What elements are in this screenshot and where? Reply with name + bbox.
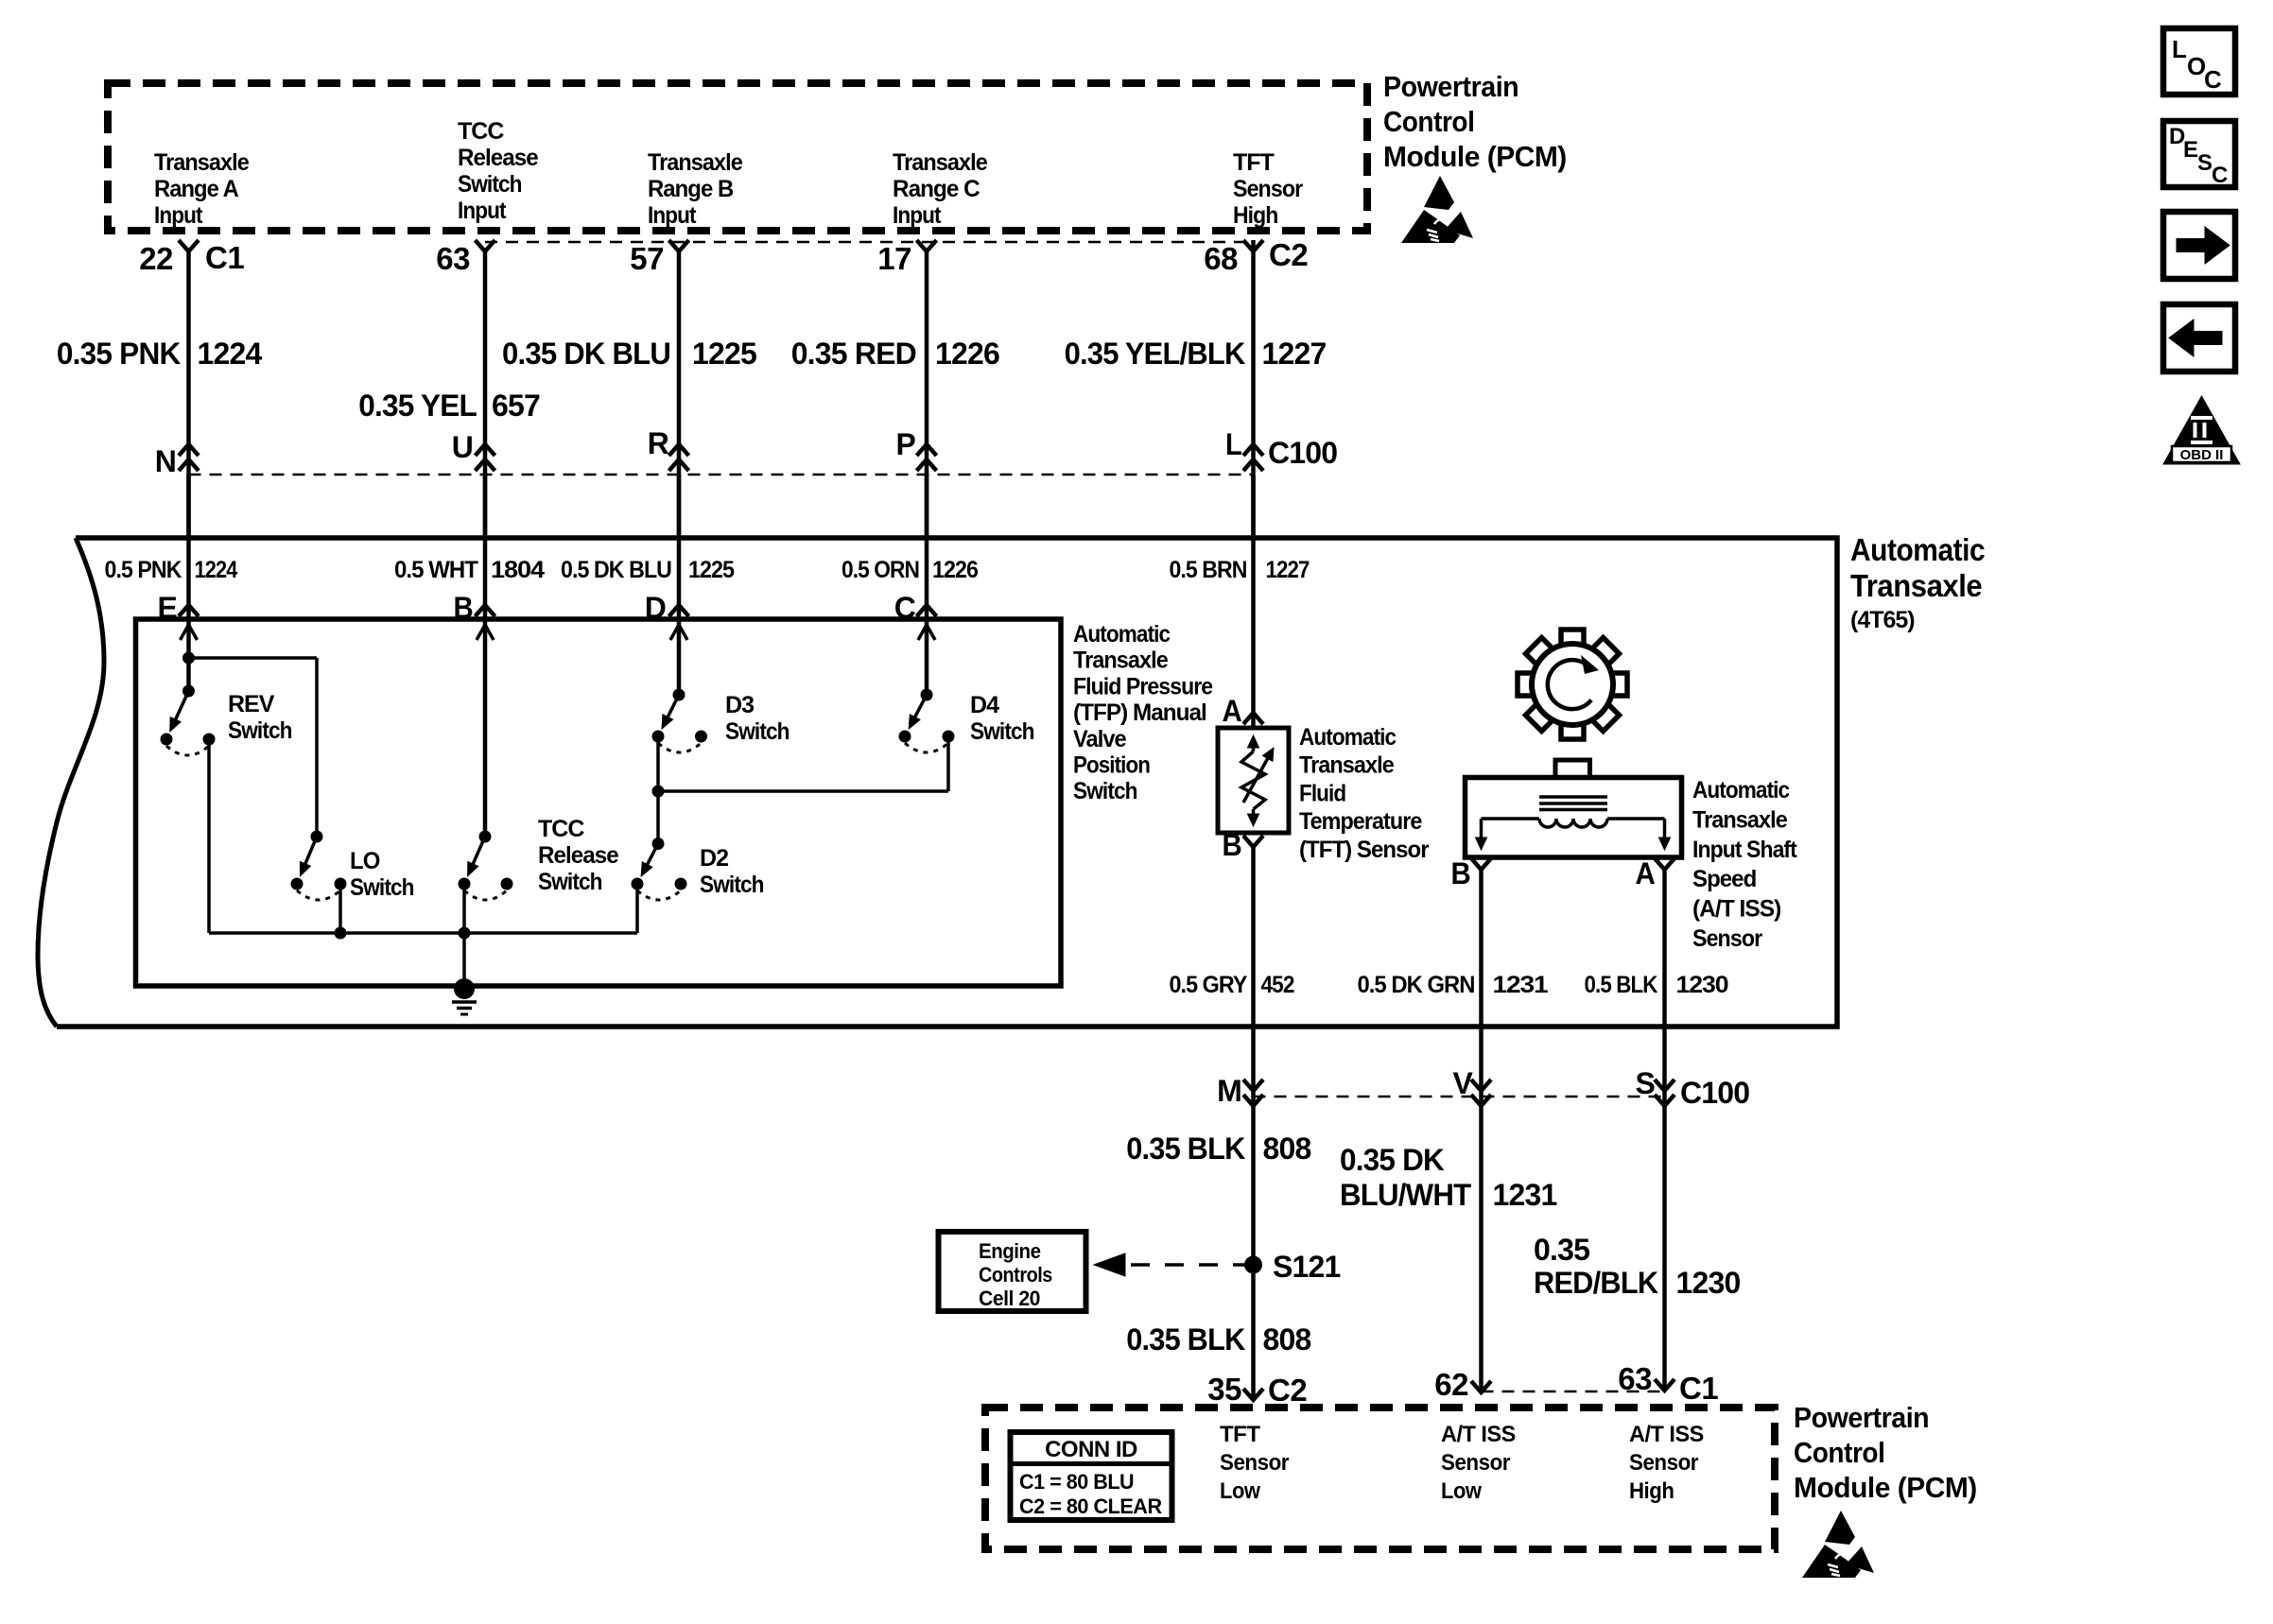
svg-text:C1 = 80 BLU: C1 = 80 BLU bbox=[1019, 1470, 1134, 1494]
connector C100 pin V bbox=[1453, 1066, 1492, 1106]
svg-text:Transaxle: Transaxle bbox=[1299, 752, 1395, 779]
label TFT Sensor Low bbox=[1220, 1422, 1289, 1504]
D3 switch contacts bbox=[652, 731, 708, 753]
svg-text:L: L bbox=[2172, 35, 2187, 63]
svg-text:1227: 1227 bbox=[1266, 557, 1310, 583]
svg-text:OBD II: OBD II bbox=[2180, 447, 2224, 463]
wire to LO switch feed bbox=[189, 658, 318, 837]
svg-text:B: B bbox=[1451, 856, 1471, 890]
svg-text:0.35 PNK: 0.35 PNK bbox=[57, 337, 181, 371]
pin 63 connector bottom bbox=[1618, 1361, 1674, 1396]
svg-text:0.35 RED: 0.35 RED bbox=[791, 337, 916, 371]
svg-text:0.5 PNK: 0.5 PNK bbox=[105, 557, 182, 583]
TFP manual valve position switch box bbox=[136, 619, 1062, 986]
wire D2 contact to common bus bbox=[635, 884, 639, 933]
REV switch arm bbox=[170, 691, 189, 732]
TFT sensor pin A bbox=[1223, 694, 1264, 728]
svg-text:TCC: TCC bbox=[458, 118, 504, 145]
svg-text:1224: 1224 bbox=[195, 557, 238, 583]
wire REV contact to common bus bbox=[207, 739, 211, 933]
svg-text:Fluid: Fluid bbox=[1299, 780, 1345, 806]
label Automatic Transaxle Fluid Pressure (TFP) Manual Valve Position Switch bbox=[1073, 621, 1213, 804]
svg-text:(4T65): (4T65) bbox=[1850, 607, 1915, 633]
back arrow icon bbox=[2163, 304, 2235, 371]
wire 452 GRY from TFT B bbox=[1251, 847, 1256, 1400]
label 0.35 RED/BLK 1230 bbox=[1534, 1233, 1741, 1300]
D3 switch pivot node bbox=[673, 689, 685, 701]
svg-text:A: A bbox=[1636, 856, 1656, 890]
svg-text:0.35 DK: 0.35 DK bbox=[1340, 1143, 1445, 1177]
node TCC-bus junction bbox=[459, 927, 471, 940]
label 0.35 YEL/BLK 1227 bbox=[1065, 337, 1327, 371]
wire 1225 DK BLU from PCM pin 57 bbox=[677, 251, 682, 695]
svg-text:A/T ISS: A/T ISS bbox=[1629, 1422, 1704, 1447]
svg-text:63: 63 bbox=[436, 241, 470, 276]
svg-text:0.5 BRN: 0.5 BRN bbox=[1170, 557, 1247, 583]
svg-text:(TFP) Manual: (TFP) Manual bbox=[1073, 700, 1206, 726]
svg-text:N: N bbox=[155, 444, 176, 478]
TCC release switch contacts bbox=[459, 878, 513, 901]
svg-text:1227: 1227 bbox=[1262, 337, 1327, 371]
svg-text:Controls: Controls bbox=[979, 1263, 1052, 1287]
node LO-bus junction bbox=[335, 927, 347, 940]
svg-text:CONN ID: CONN ID bbox=[1045, 1437, 1137, 1462]
svg-text:Powertrain: Powertrain bbox=[1794, 1401, 1929, 1434]
svg-text:Sensor: Sensor bbox=[1220, 1450, 1289, 1476]
D4 switch arm bbox=[909, 695, 927, 729]
svg-text:V: V bbox=[1453, 1066, 1474, 1100]
connector C100 pin N bbox=[155, 444, 199, 478]
D2 switch arm bbox=[641, 844, 658, 877]
label 0.5 GRY 452 bbox=[1170, 972, 1294, 998]
svg-text:Input: Input bbox=[154, 202, 203, 229]
label Powertrain Control Module (PCM) top bbox=[1383, 70, 1567, 173]
wire 1226 C100 to transaxle bbox=[925, 475, 929, 538]
wire 1224 PNK from PCM pin 22 bbox=[186, 251, 191, 691]
D4 switch pivot node bbox=[921, 689, 933, 701]
svg-text:Valve: Valve bbox=[1073, 726, 1127, 752]
dashed reference arrow to Engine Controls bbox=[1094, 1253, 1245, 1276]
splice S121 node bbox=[1244, 1256, 1262, 1274]
forward arrow icon bbox=[2163, 212, 2235, 279]
label REV Switch bbox=[228, 691, 292, 744]
svg-text:Range B: Range B bbox=[648, 176, 733, 202]
REV switch pivot node bbox=[182, 685, 195, 698]
REV switch feed junction node bbox=[182, 652, 195, 665]
svg-text:35: 35 bbox=[1207, 1372, 1241, 1407]
svg-text:Sensor: Sensor bbox=[1629, 1450, 1698, 1476]
TFP entry arrow D bbox=[670, 625, 687, 640]
svg-text:TCC: TCC bbox=[538, 816, 584, 842]
label 0.35 DK BLU 1225 bbox=[502, 337, 756, 371]
label 0.5 DK GRN 1231 bbox=[1358, 972, 1549, 998]
svg-text:Control: Control bbox=[1794, 1436, 1884, 1469]
svg-text:0.35 YEL: 0.35 YEL bbox=[358, 389, 477, 423]
svg-text:Switch: Switch bbox=[350, 874, 414, 901]
svg-text:High: High bbox=[1233, 202, 1277, 229]
svg-text:C: C bbox=[2204, 65, 2222, 94]
common bus wire bbox=[209, 931, 637, 935]
svg-text:1225: 1225 bbox=[692, 337, 756, 371]
label Powertrain Control Module (PCM) bottom bbox=[1794, 1401, 1977, 1504]
svg-text:657: 657 bbox=[492, 389, 540, 423]
label Automatic Transaxle Input Shaft Speed (A/T ISS) Sensor bbox=[1692, 777, 1797, 952]
label S121 bbox=[1273, 1250, 1341, 1284]
svg-text:A: A bbox=[1223, 694, 1242, 728]
label Automatic Transaxle Fluid Temperature (TFT) Sensor bbox=[1299, 724, 1430, 863]
svg-text:High: High bbox=[1629, 1478, 1674, 1504]
svg-text:62: 62 bbox=[1434, 1367, 1468, 1402]
label D4 Switch bbox=[970, 692, 1034, 745]
label 0.5 PNK 1224 bbox=[105, 557, 238, 583]
Automatic Transaxle enclosure bbox=[38, 538, 1837, 1027]
connector C100 label row2 bbox=[1680, 1076, 1749, 1110]
connector C100 label row1 bbox=[1268, 436, 1337, 470]
svg-text:1226: 1226 bbox=[935, 337, 999, 371]
svg-text:BLU/WHT: BLU/WHT bbox=[1340, 1178, 1472, 1212]
label D3 Switch bbox=[725, 692, 789, 745]
svg-text:Input: Input bbox=[648, 202, 697, 229]
svg-text:0.5 WHT: 0.5 WHT bbox=[394, 557, 478, 583]
ISS sensor leads bbox=[1476, 819, 1671, 850]
svg-text:17: 17 bbox=[877, 241, 911, 276]
svg-text:22: 22 bbox=[139, 241, 173, 276]
D2 switch pivot node bbox=[652, 838, 665, 850]
svg-text:L: L bbox=[1225, 427, 1241, 461]
ESD warning icon top bbox=[1401, 176, 1473, 243]
label A/T ISS Sensor Low bbox=[1441, 1422, 1516, 1504]
svg-text:Powertrain: Powertrain bbox=[1383, 70, 1518, 103]
label LO Switch bbox=[350, 848, 414, 901]
svg-text:B: B bbox=[1223, 828, 1242, 862]
wire 657 YEL from PCM pin 63 bbox=[483, 251, 488, 837]
svg-text:Transaxle: Transaxle bbox=[1850, 568, 1982, 603]
LO switch arm bbox=[300, 837, 317, 876]
pin 22 connector bbox=[139, 240, 199, 276]
svg-text:Input Shaft: Input Shaft bbox=[1692, 837, 1797, 863]
connector C100 pin P bbox=[896, 427, 937, 471]
connector C2 label bbox=[1269, 237, 1308, 272]
D2 switch contacts bbox=[632, 878, 687, 901]
ISS sensor connector tab bbox=[1555, 760, 1590, 778]
TFT sensor thermistor symbol bbox=[1241, 735, 1274, 826]
label 0.35 BLK 808 lower bbox=[1126, 1322, 1310, 1356]
svg-text:TFT: TFT bbox=[1220, 1422, 1260, 1447]
svg-text:808: 808 bbox=[1263, 1132, 1311, 1166]
svg-text:Low: Low bbox=[1220, 1478, 1260, 1504]
svg-text:0.5 DK GRN: 0.5 DK GRN bbox=[1358, 972, 1475, 998]
svg-text:C1: C1 bbox=[205, 240, 244, 275]
label 0.5 ORN 1226 bbox=[842, 557, 978, 583]
connector C100 pin S bbox=[1636, 1066, 1675, 1106]
svg-text:LO: LO bbox=[350, 848, 380, 874]
pin 17 connector bbox=[877, 240, 936, 276]
ISS sensor pin A bbox=[1636, 856, 1675, 890]
svg-text:M: M bbox=[1217, 1074, 1241, 1108]
svg-text:Position: Position bbox=[1073, 752, 1150, 779]
wire 1224 C100 to transaxle bbox=[186, 475, 191, 538]
svg-text:Automatic: Automatic bbox=[1299, 724, 1397, 751]
svg-text:Switch: Switch bbox=[538, 869, 602, 895]
svg-text:68: 68 bbox=[1204, 241, 1238, 276]
svg-text:C100: C100 bbox=[1268, 436, 1337, 470]
TFT sensor pin B bbox=[1223, 828, 1264, 862]
svg-text:D2: D2 bbox=[700, 845, 728, 872]
wire 1226 RED from PCM pin 17 bbox=[925, 251, 929, 695]
TCC release switch arm bbox=[468, 837, 485, 876]
svg-text:Switch: Switch bbox=[725, 718, 789, 745]
wire 1227 C100 to transaxle bbox=[1251, 475, 1256, 538]
svg-text:Release: Release bbox=[458, 145, 539, 171]
wire D4 link bbox=[658, 736, 948, 791]
svg-text:Module (PCM): Module (PCM) bbox=[1383, 140, 1567, 173]
svg-text:0.35 DK BLU: 0.35 DK BLU bbox=[502, 337, 670, 371]
svg-text:0.35 BLK: 0.35 BLK bbox=[1126, 1322, 1245, 1356]
svg-text:Input: Input bbox=[458, 198, 507, 224]
svg-text:Transaxle: Transaxle bbox=[1692, 806, 1788, 833]
svg-text:Transaxle: Transaxle bbox=[1073, 648, 1169, 674]
label 0.35 PNK 1224 bbox=[57, 337, 263, 371]
pin 57 connector bbox=[630, 240, 688, 276]
connector C100 pin U bbox=[452, 430, 495, 471]
ISS sensor box bbox=[1466, 778, 1682, 858]
ISS sensor coil bbox=[1539, 819, 1607, 827]
svg-text:Transaxle: Transaxle bbox=[893, 149, 988, 176]
svg-text:R: R bbox=[648, 426, 669, 460]
svg-text:0.5 BLK: 0.5 BLK bbox=[1585, 972, 1658, 998]
wire 1227 YEL/BLK from PCM pin 68 bbox=[1251, 240, 1256, 728]
svg-text:Temperature: Temperature bbox=[1299, 808, 1422, 835]
svg-text:0.5 ORN: 0.5 ORN bbox=[842, 557, 919, 583]
label 0.5 WHT 1804 bbox=[394, 557, 545, 583]
svg-text:Speed: Speed bbox=[1692, 866, 1756, 892]
svg-text:Switch: Switch bbox=[458, 171, 522, 198]
wire 1804 C100 to transaxle bbox=[483, 475, 488, 538]
svg-text:Transaxle: Transaxle bbox=[648, 149, 743, 176]
wire LO contact to common bus bbox=[338, 884, 342, 933]
svg-text:P: P bbox=[896, 427, 916, 461]
label 0.35 BLK 808 upper bbox=[1126, 1132, 1310, 1166]
svg-text:Automatic: Automatic bbox=[1073, 621, 1171, 648]
label Transaxle Range A Input bbox=[154, 149, 250, 229]
PCM connector block (top dashed box) bbox=[108, 83, 1367, 231]
svg-text:S121: S121 bbox=[1273, 1250, 1341, 1284]
svg-text:Low: Low bbox=[1441, 1478, 1482, 1504]
ISS sensor core lines bbox=[1539, 797, 1607, 810]
svg-text:1225: 1225 bbox=[688, 557, 735, 583]
svg-text:Switch: Switch bbox=[228, 717, 292, 744]
label Engine Controls Cell 20 bbox=[979, 1239, 1052, 1310]
TCC release switch input node bbox=[479, 831, 492, 843]
C2 internal dashed link bbox=[485, 241, 1254, 244]
svg-text:S: S bbox=[2197, 150, 2212, 176]
svg-text:808: 808 bbox=[1263, 1322, 1311, 1356]
LO switch input node bbox=[311, 831, 323, 843]
svg-text:C100: C100 bbox=[1680, 1076, 1749, 1110]
svg-text:Release: Release bbox=[538, 842, 619, 869]
label Automatic Transaxle (4T65) bbox=[1850, 532, 1985, 633]
connector C100 row2 dashed line bbox=[1254, 1096, 1665, 1098]
label 0.35 YEL 657 bbox=[358, 389, 540, 423]
svg-text:1226: 1226 bbox=[932, 557, 978, 583]
TFT sensor box bbox=[1218, 728, 1289, 833]
svg-text:U: U bbox=[452, 430, 473, 464]
svg-text:E: E bbox=[2183, 137, 2198, 163]
svg-text:Switch: Switch bbox=[700, 872, 764, 898]
wire 1225 C100 to transaxle bbox=[677, 475, 682, 538]
svg-text:57: 57 bbox=[630, 241, 664, 276]
TFP entry arrow E bbox=[181, 625, 198, 640]
svg-text:1804: 1804 bbox=[491, 557, 545, 583]
svg-text:Engine: Engine bbox=[979, 1239, 1041, 1263]
svg-text:C2: C2 bbox=[1269, 237, 1308, 272]
label 0.5 DK BLU 1225 bbox=[561, 557, 735, 583]
svg-text:(A/T ISS): (A/T ISS) bbox=[1692, 896, 1781, 923]
label 0.35 DK BLU/WHT 1231 bbox=[1340, 1143, 1557, 1212]
connector C1 label bottom bbox=[1679, 1371, 1718, 1406]
node D3/D4 junction bbox=[652, 786, 665, 798]
pin 68 connector bbox=[1204, 240, 1263, 276]
svg-text:0.35: 0.35 bbox=[1534, 1233, 1589, 1267]
label 0.35 RED 1226 bbox=[791, 337, 999, 371]
D3 switch arm bbox=[662, 695, 679, 729]
TFP switch pin B bbox=[454, 591, 495, 625]
TFP switch pin C bbox=[894, 591, 937, 625]
svg-text:1231: 1231 bbox=[1493, 972, 1549, 998]
connector C100 pin L bbox=[1225, 427, 1263, 471]
pin 63 connector bbox=[436, 240, 495, 276]
svg-text:RED/BLK: RED/BLK bbox=[1534, 1266, 1658, 1300]
svg-text:Switch: Switch bbox=[1073, 778, 1137, 804]
label TCC Release Switch Input bbox=[458, 118, 539, 224]
wire 1231 DK GRN from ISS B bbox=[1479, 870, 1484, 1392]
pin 62 connector bbox=[1434, 1367, 1491, 1402]
ISS sensor pin B bbox=[1451, 856, 1492, 890]
pin 35 connector bbox=[1207, 1372, 1263, 1407]
svg-text:D3: D3 bbox=[725, 692, 754, 718]
wire 1230 BLK from ISS A bbox=[1662, 870, 1667, 1391]
svg-text:Module (PCM): Module (PCM) bbox=[1794, 1471, 1977, 1504]
D4 switch contacts bbox=[899, 731, 955, 753]
svg-text:(TFT) Sensor: (TFT) Sensor bbox=[1299, 837, 1430, 863]
svg-text:Sensor: Sensor bbox=[1441, 1450, 1510, 1476]
svg-text:D4: D4 bbox=[970, 692, 999, 718]
C1 internal dashed link bottom bbox=[1482, 1391, 1665, 1393]
svg-text:Range C: Range C bbox=[893, 176, 980, 202]
label 0.5 BLK 1230 bbox=[1585, 972, 1728, 998]
svg-text:C2: C2 bbox=[1268, 1373, 1307, 1408]
svg-text:0.35 BLK: 0.35 BLK bbox=[1126, 1132, 1245, 1166]
CONN ID table bbox=[1011, 1432, 1172, 1520]
ISS reluctor gear icon bbox=[1518, 630, 1627, 739]
TFP switch pin E bbox=[158, 591, 200, 625]
TFP entry arrow B bbox=[477, 625, 494, 640]
OBD II icon bbox=[2163, 396, 2240, 464]
connector C100 pin R bbox=[648, 426, 689, 471]
REV switch contacts bbox=[161, 734, 216, 756]
DESC icon bbox=[2163, 121, 2235, 188]
svg-text:1224: 1224 bbox=[198, 337, 263, 371]
svg-text:1230: 1230 bbox=[1676, 972, 1728, 998]
label A/T ISS Sensor High bbox=[1629, 1422, 1704, 1504]
TFP switch pin D bbox=[645, 591, 689, 625]
svg-text:1231: 1231 bbox=[1493, 1178, 1557, 1212]
ESD warning icon bottom bbox=[1802, 1511, 1874, 1578]
connector C100 row dashed line bbox=[189, 474, 1254, 476]
connector C1 label bbox=[205, 240, 244, 275]
svg-text:0.35 YEL/BLK: 0.35 YEL/BLK bbox=[1065, 337, 1246, 371]
label D2 Switch bbox=[700, 845, 764, 898]
label TCC Release Switch bbox=[538, 816, 619, 895]
svg-text:C2 = 80 CLEAR: C2 = 80 CLEAR bbox=[1019, 1494, 1162, 1518]
svg-text:TFT: TFT bbox=[1233, 149, 1275, 176]
svg-text:C: C bbox=[2212, 163, 2228, 188]
svg-text:Automatic: Automatic bbox=[1850, 532, 1985, 567]
svg-text:Control: Control bbox=[1383, 105, 1474, 138]
svg-text:S: S bbox=[1636, 1066, 1656, 1100]
label TFT Sensor High bbox=[1233, 149, 1303, 229]
label 0.5 BRN 1227 bbox=[1170, 557, 1310, 583]
svg-text:452: 452 bbox=[1261, 972, 1294, 998]
svg-text:Automatic: Automatic bbox=[1692, 777, 1790, 803]
svg-text:Fluid Pressure: Fluid Pressure bbox=[1073, 673, 1213, 700]
svg-text:1230: 1230 bbox=[1676, 1266, 1741, 1300]
TFP entry arrow C bbox=[918, 625, 935, 640]
svg-text:0.5 GRY: 0.5 GRY bbox=[1170, 972, 1248, 998]
svg-text:REV: REV bbox=[228, 691, 275, 717]
connector C100 pin M bbox=[1217, 1074, 1263, 1108]
label Transaxle Range B Input bbox=[648, 149, 743, 229]
ground symbol bbox=[452, 1002, 477, 1014]
ground junction node bbox=[454, 978, 475, 999]
LOC icon bbox=[2163, 28, 2235, 95]
PCM connector block (bottom dashed box) bbox=[985, 1408, 1775, 1549]
svg-text:Switch: Switch bbox=[970, 718, 1034, 745]
svg-text:0.5 DK BLU: 0.5 DK BLU bbox=[561, 557, 671, 583]
svg-text:A/T ISS: A/T ISS bbox=[1441, 1422, 1516, 1447]
wire D3 contact down to D2 bbox=[656, 736, 660, 844]
svg-text:Transaxle: Transaxle bbox=[154, 149, 250, 176]
Engine Controls Cell 20 box bbox=[939, 1232, 1086, 1311]
svg-text:Range A: Range A bbox=[154, 176, 239, 202]
label Transaxle Range C Input bbox=[893, 149, 988, 229]
wire TCC contact to ground bbox=[462, 884, 466, 989]
svg-text:Sensor: Sensor bbox=[1692, 925, 1762, 952]
svg-text:Sensor: Sensor bbox=[1233, 176, 1303, 202]
svg-text:Input: Input bbox=[893, 202, 942, 229]
LO switch contacts bbox=[291, 878, 347, 901]
svg-text:C1: C1 bbox=[1679, 1371, 1718, 1406]
svg-text:Cell 20: Cell 20 bbox=[979, 1287, 1040, 1310]
connector C2 label bottom bbox=[1268, 1373, 1307, 1408]
